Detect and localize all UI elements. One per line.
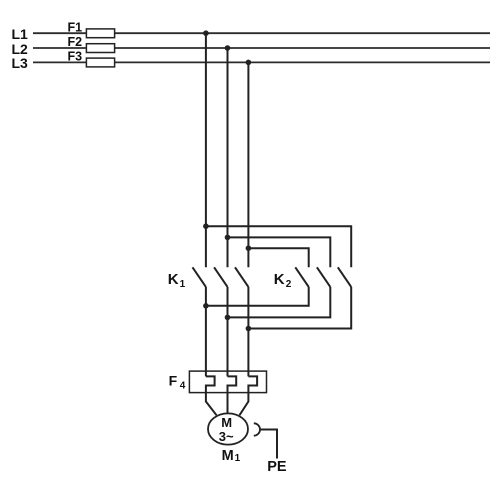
wire F4 to motor phase C: [240, 393, 249, 416]
svg-text:K: K: [168, 271, 179, 288]
wire phase A vertical drop to K1 pole1: [205, 33, 207, 267]
svg-text:M: M: [221, 415, 232, 430]
svg-text:4: 4: [180, 381, 186, 392]
fuse F2: [86, 44, 114, 53]
node junction dot lower B: [225, 315, 231, 321]
overload heater element phase C: [248, 376, 257, 392]
wire K2 pole1 bottom to node A lower: [206, 287, 309, 306]
wire phase C vertical drop to K1 pole3: [247, 62, 249, 267]
svg-text:F: F: [169, 373, 178, 389]
contactor K1 pole 2 blade: [214, 267, 227, 287]
overload relay F4 box: [189, 371, 266, 393]
contactor K1 pole 3 blade: [235, 267, 248, 287]
node junction dot L3 tap: [246, 60, 252, 66]
svg-text:M: M: [222, 448, 234, 464]
fuse F1: [86, 29, 114, 38]
node junction dot lower C: [246, 326, 252, 332]
svg-text:F3: F3: [68, 50, 83, 64]
svg-text:F2: F2: [68, 35, 83, 49]
wire F4 to motor phase B: [227, 393, 229, 414]
svg-text:PE: PE: [267, 459, 287, 475]
node junction dot lower A: [203, 303, 209, 309]
wire L2 phase line: [33, 47, 490, 49]
wire K1 pole2 bottom down to F4: [227, 287, 229, 377]
wire F4 to motor phase A: [206, 393, 217, 416]
wire K1 pole3 bottom down to F4: [247, 287, 249, 377]
wire K2 feed from B to pole2 top: [228, 237, 331, 267]
fuse F3: [86, 58, 114, 67]
node junction dot K2 feed A: [203, 223, 209, 229]
wire K2 pole2 bottom to node B lower: [228, 287, 331, 318]
contactor K2 pole 2 blade: [317, 267, 330, 287]
wire K2 feed from C to pole1 top: [248, 248, 308, 267]
wire K2 feed from A to pole3 top: [206, 226, 351, 267]
svg-text:K: K: [274, 271, 285, 288]
svg-text:3~: 3~: [219, 429, 234, 444]
wire phase B vertical drop to K1 pole2: [227, 48, 229, 267]
svg-text:F1: F1: [68, 20, 83, 34]
wire K2 pole3 bottom to node C lower: [248, 287, 351, 329]
wire PE: [260, 430, 277, 459]
svg-text:2: 2: [286, 279, 292, 290]
svg-text:L1: L1: [12, 26, 29, 42]
contactor K2 pole 3 blade: [338, 267, 351, 287]
svg-text:1: 1: [235, 453, 241, 464]
contactor K2 pole 1 blade: [295, 267, 308, 287]
overload heater element phase B: [228, 376, 237, 392]
PE terminal arc on motor frame: [254, 423, 260, 435]
wire L3 phase line: [33, 61, 490, 63]
svg-text:1: 1: [180, 279, 186, 290]
wire L1 phase line: [33, 32, 490, 34]
overload heater element phase A: [206, 376, 215, 392]
node junction dot L1 tap: [203, 30, 209, 36]
node junction dot L2 tap: [225, 45, 231, 51]
contactor K1 pole 1 blade: [193, 267, 206, 287]
node junction dot K2 feed B: [225, 235, 231, 241]
svg-text:L3: L3: [12, 55, 29, 71]
node junction dot K2 feed C: [246, 245, 252, 251]
wire K1 pole1 bottom down to F4: [205, 287, 207, 377]
motor M1 circle: [208, 413, 248, 444]
